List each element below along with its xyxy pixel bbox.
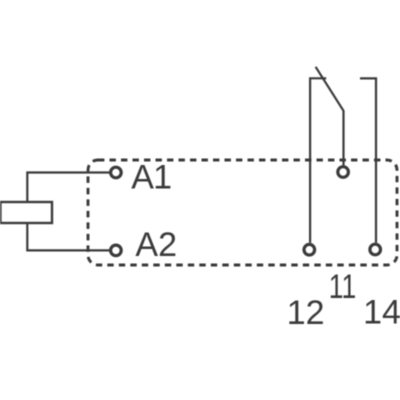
contact arm (movable blade from pin 11) <box>316 67 344 166</box>
svg-text:12: 12 <box>287 294 325 332</box>
wire A2 (coil bottom to terminal A2) <box>27 223 111 250</box>
pin label 11 <box>329 268 357 306</box>
coil K1 <box>0 202 52 223</box>
terminal 12 <box>304 244 315 255</box>
svg-text:11: 11 <box>329 268 357 306</box>
svg-text:A2: A2 <box>135 226 177 264</box>
relay enclosure outline (dashed) <box>88 160 397 265</box>
terminal A2 <box>111 245 122 256</box>
svg-text:14: 14 <box>363 294 400 332</box>
terminal 14 <box>370 244 381 255</box>
wire A1 (coil top to terminal A1) <box>27 173 111 203</box>
wire pin 14 (fixed contact, L shape) <box>360 78 376 242</box>
terminal A1 <box>111 167 122 178</box>
svg-text:A1: A1 <box>131 159 172 197</box>
wire pin 12 (fixed contact with top tick) <box>310 78 326 243</box>
terminal 11 <box>338 167 349 178</box>
